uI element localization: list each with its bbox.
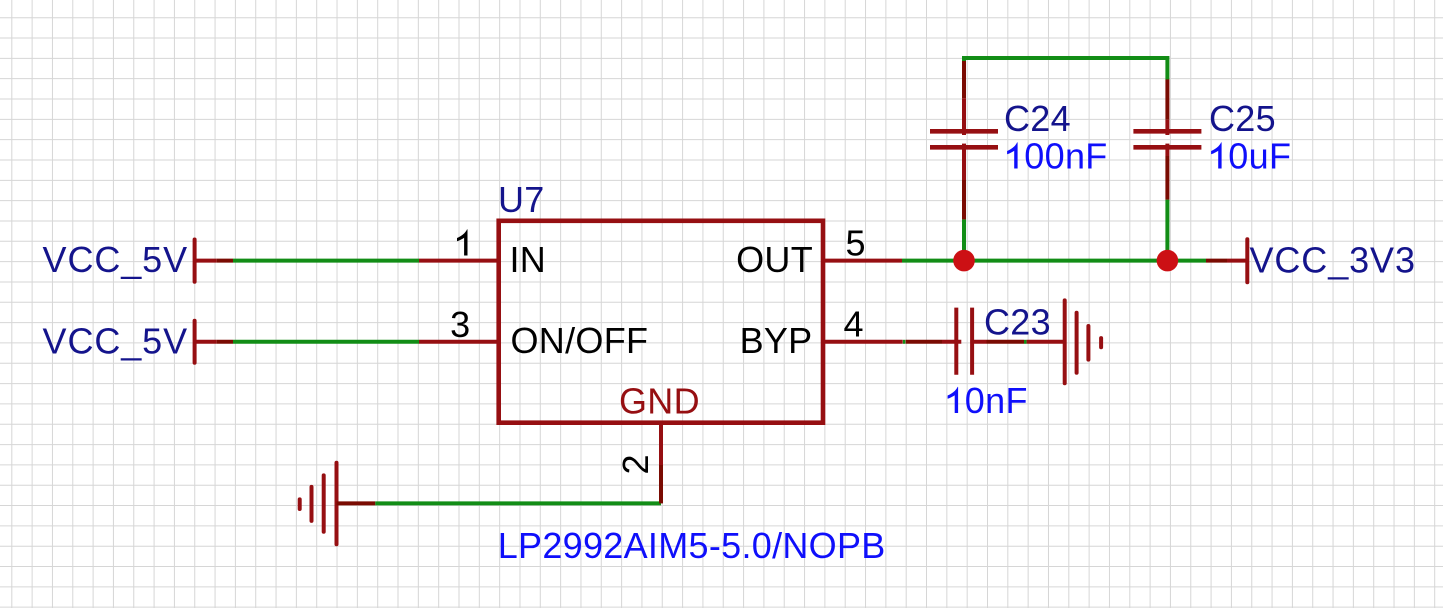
wire GND net (375, 501, 661, 505)
wire C25 bottom to OUT net (1165, 200, 1169, 261)
power port VCC_3V3 (1206, 239, 1416, 282)
svg-text:2: 2 (615, 454, 656, 474)
svg-text:C24: C24 (1004, 98, 1071, 139)
svg-text:BYP: BYP (740, 320, 813, 361)
pin 3 (ON/OFF) of U7 (419, 304, 500, 345)
IC U7 (LP2992 regulator) body rectangle (499, 221, 823, 423)
svg-text:C25: C25 (1209, 98, 1276, 139)
wire VCC_5V to pin 1 (233, 259, 419, 263)
svg-text:U7: U7 (498, 179, 545, 220)
svg-text:LP2992AIM5-5.0/NOPB: LP2992AIM5-5.0/NOPB (498, 525, 886, 566)
ground symbol (earth) right of C23 (1027, 300, 1102, 383)
power port VCC_5V (net to pin 1) (43, 239, 233, 282)
svg-text:0nF: 0nF (965, 380, 1028, 421)
svg-text:ON/OFF: ON/OFF (511, 320, 649, 361)
pin 2 (GND) of U7 (615, 423, 661, 504)
svg-text:VCC_5V: VCC_5V (43, 239, 188, 280)
capacitor C25 (1133, 79, 1291, 199)
pin 4 (BYP) of U7 (823, 304, 903, 345)
wire VCC_5V to pin 3 (233, 340, 419, 344)
svg-text:IN: IN (510, 239, 547, 280)
capacitor C24 (930, 61, 1108, 219)
svg-text:C23: C23 (984, 302, 1051, 343)
svg-text:OUT: OUT (736, 239, 813, 280)
ground symbol (earth) at pin 2 net (300, 463, 376, 545)
svg-text:GND: GND (619, 381, 700, 422)
svg-text:3: 3 (450, 304, 470, 345)
power port VCC_5V (net to pin 3) (43, 321, 233, 363)
capacitor C23 (906, 302, 1051, 422)
wire top bus over capacitors (964, 58, 1167, 80)
svg-text:VCC_5V: VCC_5V (43, 321, 188, 362)
svg-text:VCC_3V3: VCC_3V3 (1250, 240, 1416, 281)
wire OUT net (902, 259, 1206, 263)
junction node at C24 / OUT net (953, 250, 975, 272)
svg-text:00nF: 00nF (1024, 136, 1107, 177)
svg-text:4: 4 (844, 304, 864, 345)
svg-text:5: 5 (846, 223, 866, 264)
svg-text:0uF: 0uF (1228, 136, 1291, 177)
wire C24 bottom to OUT net (962, 219, 966, 260)
pin 5 (OUT) of U7 (823, 223, 902, 264)
junction node at C25 / OUT net (1157, 250, 1179, 272)
wire BYP net (junction specks) (903, 340, 1027, 344)
pin 1 (IN) of U7 (419, 229, 500, 260)
